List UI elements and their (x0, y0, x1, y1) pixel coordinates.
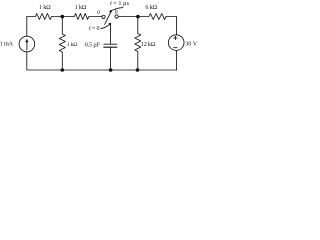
svg-text:b: b (115, 9, 118, 15)
svg-text:30 V: 30 V (185, 40, 198, 47)
svg-text:1 kΩ: 1 kΩ (39, 4, 51, 11)
svg-text:6 kΩ: 6 kΩ (145, 4, 157, 11)
svg-text:12 kΩ: 12 kΩ (141, 41, 156, 48)
svg-text:1 kΩ: 1 kΩ (75, 4, 87, 11)
svg-text:a: a (97, 9, 100, 15)
svg-text:1 mA: 1 mA (0, 40, 14, 47)
svg-text:t = 0: t = 0 (89, 25, 100, 32)
svg-text:1 kΩ: 1 kΩ (67, 42, 78, 48)
svg-text:t = 1 µs: t = 1 µs (110, 0, 130, 7)
svg-text:0.5 µF: 0.5 µF (85, 42, 101, 49)
